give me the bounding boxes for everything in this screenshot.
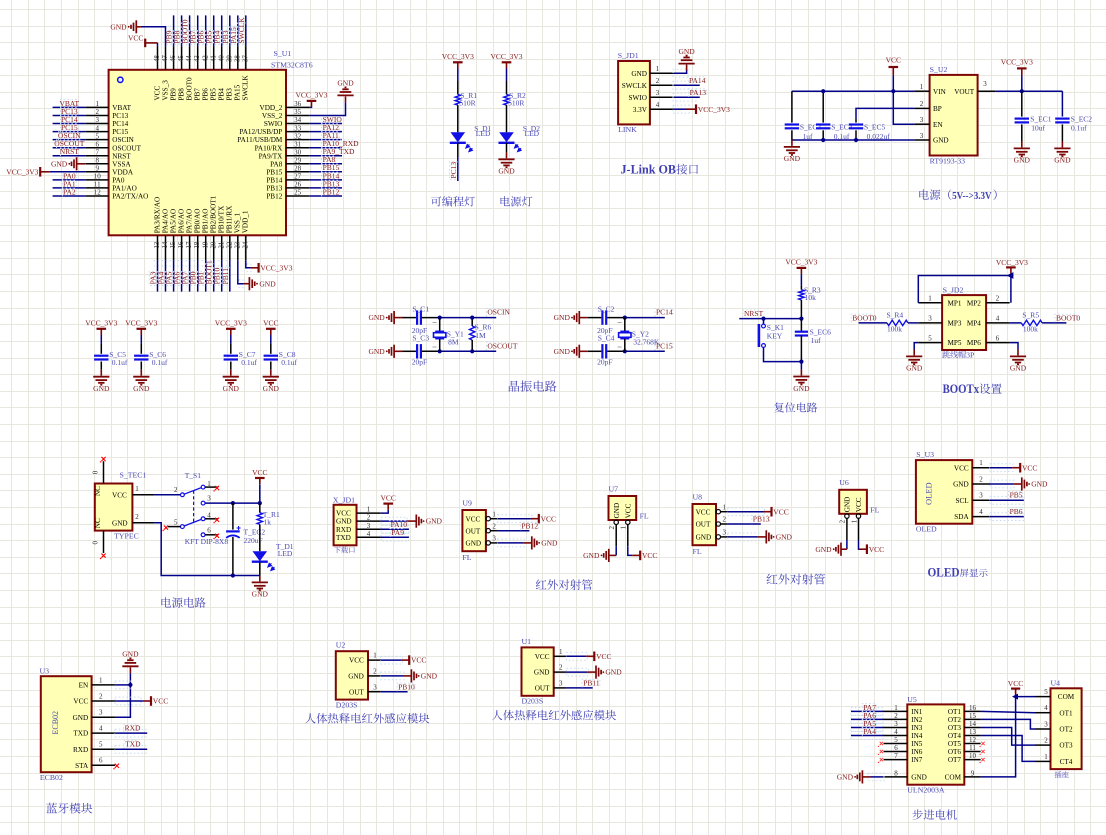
svg-text:VCC: VCC [380, 493, 395, 502]
svg-text:PA6/AO: PA6/AO [177, 209, 185, 234]
power port VCC_3V3 at U1 pin 36 [307, 100, 317, 102]
svg-text:GND: GND [793, 384, 810, 393]
wire net PB9 (pin 46) [170, 26, 178, 30]
svg-text:7: 7 [894, 752, 898, 760]
net label PA9 [390, 529, 404, 537]
power port VCC at U6 [866, 544, 868, 554]
junction VCC column [258, 501, 262, 505]
U1 bottom pin 17 (PA7/AO) [189, 235, 191, 260]
wire OSCIN rail [440, 317, 497, 319]
S_U3 pin 2 (GND) [972, 483, 990, 485]
svg-text:46: 46 [170, 55, 177, 62]
svg-text:14: 14 [162, 241, 169, 248]
U8 pin 3 (GND) with inverted bubble [716, 535, 720, 539]
power port VCC at U3 [150, 696, 152, 706]
svg-text:OUT: OUT [535, 685, 550, 693]
junction EN/GND wire [115, 681, 131, 689]
U2 left pin 3 (EN) [914, 123, 929, 125]
wire net OSCOUT (pin 6) [53, 147, 86, 149]
junction arrow VCC/COM [1012, 694, 1018, 700]
wire MP6 to GND [1010, 343, 1018, 350]
wire net PA3 (pin 13) [154, 261, 162, 266]
svg-text:IN6: IN6 [911, 748, 923, 756]
resistor T_R1 1k [259, 503, 261, 513]
svg-text:6: 6 [96, 140, 100, 148]
svg-text:20pF: 20pF [597, 357, 612, 366]
svg-text:GND: GND [554, 313, 571, 322]
U5 right pin 11 (OT6) [964, 751, 980, 753]
power port GND at U2 [410, 669, 412, 682]
wire JD1 pin1 to GND [673, 69, 688, 77]
svg-text:VCC_3V3: VCC_3V3 [785, 258, 817, 267]
svg-text:PB4: PB4 [218, 88, 226, 101]
svg-text:VSSA: VSSA [112, 160, 131, 168]
svg-text:PB1/AO: PB1/AO [202, 209, 210, 234]
JD2 pin 2 (MP2) [986, 302, 1010, 304]
net label PC14 [655, 308, 673, 316]
svg-text:PB11: PB11 [583, 679, 600, 688]
title 电源电路 [161, 597, 205, 608]
svg-text:3: 3 [983, 80, 987, 88]
svg-text:GND: GND [263, 384, 280, 393]
junction R6 bottom [470, 349, 474, 353]
svg-text:ECB02: ECB02 [51, 711, 60, 735]
svg-text:15: 15 [170, 241, 177, 248]
svg-text:ECB02: ECB02 [40, 773, 63, 782]
svg-text:OUT: OUT [349, 688, 364, 696]
U1 bottom pin 18 (PB0/AO) [197, 235, 199, 260]
svg-text:16: 16 [969, 704, 977, 712]
power port VCC_3V3 above S_C6 [137, 328, 147, 330]
net label PB14 [322, 172, 340, 180]
svg-text:35: 35 [294, 108, 302, 116]
net label PB0 [190, 272, 198, 286]
JD2 pin 5 (MP5) [918, 342, 942, 344]
power port VCC_3V3 at JD1 pin4 [695, 104, 697, 114]
svg-text:PB10: PB10 [398, 682, 415, 691]
wire net PB6 (pin 42) [202, 26, 210, 30]
title 复位电路 [774, 402, 817, 412]
sensor U9 body [462, 510, 486, 551]
net label PC14 [61, 116, 79, 124]
wire U1 GND [566, 668, 588, 676]
U1 bottom pin 14 (PA4/AO) [165, 235, 167, 260]
net label OSCIN [486, 308, 508, 316]
net label PA6 [862, 712, 876, 720]
wire NRST [739, 318, 801, 320]
svg-text:VCC: VCC [153, 86, 161, 101]
svg-text:GND: GND [631, 70, 647, 78]
junction arrow VCC_3V3/loop [1007, 272, 1014, 279]
svg-text:1: 1 [920, 83, 924, 91]
net label SWCLK [238, 23, 246, 45]
JD2 pin 6 (MP6) [986, 342, 1010, 344]
svg-text:PC15: PC15 [112, 128, 128, 136]
junction T_EC2/bottom wire [231, 573, 235, 577]
U1 bottom pin 23 (VSS_1) [237, 235, 239, 260]
wire net PB0 (pin 18) [194, 261, 202, 266]
wire U2 OUT net PB10 [381, 691, 408, 693]
svg-text:6: 6 [207, 526, 211, 534]
svg-text:PA4/AO: PA4/AO [161, 209, 169, 234]
sensor U8 body [693, 504, 717, 545]
X_JD1 pin 4 (TXD) [357, 536, 381, 538]
TEC1 pin 1 (VCC) [132, 494, 154, 496]
svg-text:6: 6 [894, 744, 898, 752]
wire net PA14 [673, 81, 696, 89]
svg-text:3: 3 [559, 680, 563, 688]
power port VCC_3V3 above D1 [453, 61, 463, 63]
U5 left pin 4 (IN4) [884, 735, 908, 737]
svg-text:SWCLK: SWCLK [242, 75, 250, 101]
wire U1 OUT net PB11 [566, 687, 592, 689]
power port GND left of S_C2 [578, 311, 580, 324]
U1 right pin 32 (PA11/USB/DM) [286, 139, 309, 141]
svg-text:VCC_3V3: VCC_3V3 [1001, 57, 1033, 66]
wire U8 pin3 to GND [728, 533, 759, 541]
svg-text:IN3: IN3 [911, 724, 923, 732]
wire U7 GND pin down-left [615, 546, 617, 555]
power port GND below EC1 [1021, 142, 1023, 148]
power port GND above U3 wires [129, 667, 131, 673]
svg-text:SCL: SCL [956, 497, 969, 505]
net label PA7 [181, 272, 189, 286]
svg-text:PB5: PB5 [1010, 491, 1023, 500]
TEC1 top pin 0 (NC) [103, 461, 105, 483]
svg-text:IN1: IN1 [911, 708, 923, 716]
svg-text:1M: 1M [475, 331, 486, 340]
wire U9 pin2 net PB12 [498, 530, 530, 532]
svg-text:KEY: KEY [767, 331, 783, 340]
U8 pin 2 (OUT) with inverted bubble [716, 522, 720, 526]
svg-text:S_U3: S_U3 [916, 450, 934, 459]
wire net PB14 (pin 27) [309, 179, 342, 181]
svg-text:OLED: OLED [928, 564, 960, 579]
U5 right pin 14 (OT3) [964, 727, 980, 729]
svg-text:VCC_3V3: VCC_3V3 [6, 167, 38, 176]
svg-text:VCC: VCC [541, 514, 556, 523]
svg-text:2: 2 [96, 108, 100, 116]
svg-text:GND: GND [368, 313, 385, 322]
junction NRST/R3/EC6 [799, 317, 803, 321]
wire net PA2 (pin 12) [53, 195, 86, 197]
power port GND at U1 pin 23 [248, 277, 250, 290]
U4 pin 1 (CT4) [1035, 760, 1051, 762]
regulator S_U2 body [930, 75, 978, 156]
net label PC15 [655, 342, 673, 350]
svg-text:GND: GND [815, 545, 832, 554]
capacitor S_EC5 0.022uf [855, 119, 857, 123]
svg-text:PB7: PB7 [194, 88, 202, 101]
svg-text:GND: GND [337, 79, 354, 88]
svg-text:3: 3 [979, 492, 983, 500]
no-connect X at U5 pin 6 [880, 750, 883, 753]
svg-text:U2: U2 [336, 641, 346, 650]
net label OSCOUT [486, 342, 512, 350]
wire S_U3 pin2 to GND [990, 480, 1014, 488]
svg-text:PB12: PB12 [323, 187, 340, 196]
U5 left pin 8 (GND) [884, 776, 908, 778]
U8 pin 1 (VCC) with inverted bubble [716, 510, 720, 514]
wire VCC to EN [893, 91, 914, 124]
power port GND below EC3 [791, 140, 793, 146]
power port GND at U8 [765, 530, 767, 543]
net label PB6 [1009, 508, 1023, 516]
net label PB12 [520, 522, 538, 530]
svg-text:19: 19 [202, 241, 209, 248]
TEC1 bottom pin 0 (NC) [103, 531, 105, 553]
wire VCC to U4 COM [1016, 696, 1035, 698]
svg-text:OT7: OT7 [948, 756, 962, 764]
power port VCC at U7 [639, 551, 641, 561]
PIR module U1 body [522, 647, 554, 695]
U1 right pin 34 (SWIO) [286, 123, 309, 125]
switch linkage dashed line [193, 491, 195, 523]
wire OT4 to U4 [981, 736, 1035, 762]
svg-text:10k: 10k [805, 293, 817, 302]
junction crystal/OSCOUT [438, 349, 442, 353]
svg-text:11: 11 [969, 744, 976, 752]
U1 top pin 48 (VCC) [157, 46, 159, 70]
power port GND below reset [800, 370, 802, 376]
svg-text:4: 4 [1044, 704, 1048, 712]
wire net PA5 [851, 724, 883, 732]
svg-text:PB2/BOOT1: PB2/BOOT1 [210, 195, 218, 233]
wire U1 VCC [566, 652, 587, 660]
svg-text:0: 0 [92, 541, 100, 545]
svg-text:2: 2 [99, 692, 103, 700]
U3 pin 5 (RXD) [92, 748, 116, 750]
power port GND at U9 [531, 536, 533, 549]
svg-text:2: 2 [492, 522, 496, 530]
svg-text:S_U2: S_U2 [930, 65, 948, 74]
title 可编程灯 (programmable LED) [431, 196, 475, 206]
svg-text:SDA: SDA [954, 513, 969, 521]
LED T_D1 [253, 551, 268, 561]
U1 bottom pin 22 (PB11/RX) [229, 235, 231, 260]
svg-text:2: 2 [174, 486, 178, 494]
svg-text:VCC_3V3: VCC_3V3 [698, 105, 730, 114]
LED S_D1 [451, 132, 466, 142]
net label PB4 [214, 31, 222, 45]
sensor U6 body [839, 490, 867, 514]
svg-text:VIN: VIN [933, 88, 947, 96]
wire T_D1 to GND node [259, 562, 261, 576]
svg-text:LED: LED [476, 129, 491, 138]
wire net PA9_TXD (pin 30) [309, 155, 342, 157]
net label PB10 [397, 683, 415, 691]
svg-text:1: 1 [96, 100, 100, 108]
wire GND rail [792, 139, 915, 141]
U1 left pin 3 (PC14) [86, 123, 109, 125]
net label PB5 [206, 31, 214, 45]
net label PA11 [322, 132, 340, 140]
net label PA2 [62, 188, 76, 196]
svg-text:NRST: NRST [744, 309, 764, 318]
svg-text:0: 0 [92, 470, 100, 474]
wire net PA5 (pin 15) [170, 261, 178, 266]
svg-text:OT6: OT6 [948, 748, 962, 756]
wire net PC13 (pin 2) [53, 115, 86, 117]
svg-text:J-Link OB: J-Link OB [621, 163, 677, 177]
svg-text:30: 30 [294, 148, 302, 156]
JD2 part name 跳线帽3P [942, 351, 965, 358]
svg-text:4: 4 [979, 508, 983, 516]
power port VCC at U1 pin 48 [144, 39, 146, 48]
power port GND below S_C7 [230, 370, 232, 376]
svg-text:32: 32 [294, 132, 302, 140]
U1 bottom pin 24 (VDD_1) [245, 235, 247, 260]
svg-text:1k: 1k [264, 518, 272, 527]
svg-text:1: 1 [928, 295, 932, 303]
U9 pin 3 (GND) with inverted bubble [486, 541, 490, 545]
wire net PA7 (pin 17) [186, 261, 194, 266]
svg-text:3P: 3P [966, 351, 975, 360]
wire net PA0 (pin 10) [53, 179, 86, 181]
svg-text:1: 1 [135, 485, 139, 493]
wire U2 VCC [381, 656, 403, 664]
svg-text:3: 3 [492, 535, 496, 543]
svg-text:6: 6 [99, 757, 103, 765]
wire VCC_3V3 to S_C6 [140, 335, 142, 343]
svg-text:U1: U1 [522, 637, 532, 646]
svg-text:9: 9 [96, 165, 100, 173]
svg-text:36: 36 [294, 100, 302, 108]
svg-text:OLED: OLED [924, 482, 934, 505]
no-connect X at U5 pin 12 [981, 742, 984, 745]
svg-text:IN5: IN5 [911, 740, 923, 748]
svg-text:2: 2 [979, 475, 983, 483]
svg-text:1: 1 [492, 510, 496, 518]
net label PB13 [752, 515, 770, 523]
switch pin4 stub with no-connect [205, 518, 218, 520]
net label PC15 [61, 124, 79, 132]
svg-text:40: 40 [218, 55, 225, 62]
svg-text:VDD_1: VDD_1 [242, 210, 250, 233]
display connector S_U3 body [916, 460, 972, 524]
svg-text:NRST: NRST [112, 152, 131, 160]
wire net PB1 (pin 19) [202, 261, 210, 266]
svg-text:VCC: VCC [624, 503, 632, 518]
svg-text:MP2: MP2 [967, 299, 981, 307]
U1 top pin 38 (PA15) [237, 46, 239, 70]
svg-text:5: 5 [96, 132, 100, 140]
svg-text:PB3: PB3 [226, 88, 234, 101]
svg-text:BOOTx: BOOTx [943, 381, 980, 396]
net label PA10_RXD [322, 140, 355, 148]
wire net PC14 (pin 3) [53, 123, 86, 125]
svg-text:28: 28 [294, 165, 302, 173]
svg-text:3: 3 [920, 116, 924, 124]
connector S_TEC1 body [95, 484, 133, 531]
U9 pin 2 (OUT) with inverted bubble [486, 529, 490, 533]
wire R4 to BOOT0 [859, 322, 888, 324]
power port GND right of X_JD1 [415, 515, 417, 528]
JD1 pin 1 (GND) [650, 72, 674, 74]
svg-text:PA10/RX: PA10/RX [255, 144, 284, 152]
wire switch pin3 to VCC node [205, 502, 260, 504]
U2 pin 2 (GND) [368, 675, 381, 677]
net label PA8 [322, 156, 336, 164]
svg-text:GND: GND [534, 669, 550, 677]
wire U3 VCC to VCC port [115, 697, 141, 705]
svg-text:PA4: PA4 [863, 727, 876, 736]
svg-text:1: 1 [656, 65, 660, 73]
svg-text:GND: GND [906, 364, 923, 373]
wire pin36 to VCC_3V3 [309, 106, 311, 108]
svg-text:PB8: PB8 [177, 88, 185, 101]
wire U8 pin2 net PB13 [728, 523, 761, 525]
capacitor S_EC1 10uf [1021, 91, 1023, 116]
svg-text:IN2: IN2 [911, 716, 923, 724]
switch T_S1 pole 1 (pins 2-1) [181, 493, 185, 497]
svg-text:33: 33 [294, 124, 302, 132]
junction EC6/GND node [799, 360, 803, 364]
U6 pin 1 (VCC) with bubble [856, 514, 860, 518]
wire U5 COM up to VCC node [981, 697, 1016, 777]
wire net BOOT0 (pin 44) [186, 26, 194, 30]
net label BOOT0 (left) [851, 314, 873, 322]
power port VCC above S_C8 [266, 328, 276, 330]
svg-text:16: 16 [178, 241, 185, 248]
U1 right pin 29 (PA8) [286, 163, 309, 165]
title 步进电机 [912, 809, 956, 819]
svg-text:GND: GND [1010, 364, 1027, 373]
svg-text:GND: GND [933, 137, 949, 145]
svg-text:27: 27 [294, 173, 302, 181]
svg-text:S_R5: S_R5 [1022, 311, 1039, 320]
svg-text:VCC_3V3: VCC_3V3 [85, 319, 117, 328]
svg-text:GND: GND [112, 519, 128, 527]
svg-text:PC13: PC13 [449, 162, 458, 179]
svg-text:26: 26 [294, 181, 302, 189]
svg-text:VCC: VCC [773, 507, 788, 516]
power port VCC above X_JD1 [383, 503, 393, 505]
svg-text:BOOT0: BOOT0 [852, 313, 876, 322]
wire net TXD [115, 745, 146, 753]
wire net RXD [115, 729, 146, 737]
svg-text:PA9: PA9 [391, 528, 404, 537]
svg-text:VCC_3V3: VCC_3V3 [490, 52, 522, 61]
svg-text:SWCLK: SWCLK [622, 82, 648, 90]
svg-text:GND: GND [93, 384, 110, 393]
svg-text:3: 3 [367, 522, 371, 530]
svg-text:IN4: IN4 [911, 732, 923, 740]
U6 pin 2 (GND) with bubble [845, 514, 849, 518]
svg-text:23: 23 [234, 241, 241, 248]
svg-text:GND: GND [554, 347, 571, 356]
svg-text:COM: COM [945, 774, 962, 782]
svg-text:S_JD2: S_JD2 [943, 285, 964, 294]
wire net PB15 (pin 28) [309, 171, 342, 173]
wire VCC node down from top [259, 484, 261, 503]
svg-text:PA9/TX: PA9/TX [259, 152, 284, 160]
resistor S_R5 100k [1021, 320, 1042, 325]
svg-text:GND: GND [336, 518, 352, 526]
capacitor S_EC4 0.1uf [822, 91, 824, 122]
net label VBAT [61, 100, 79, 108]
net label PB5 [1009, 492, 1023, 500]
wire VCC to S_C8 [270, 335, 272, 343]
svg-text:TXD: TXD [125, 740, 141, 749]
svg-text:510R: 510R [459, 99, 475, 108]
wire net PB3 (pin 39) [226, 26, 234, 30]
svg-text:48: 48 [154, 55, 161, 62]
X_JD1 part name 下载口 [334, 546, 355, 553]
junction R6 top [470, 316, 474, 320]
U7 pin 1 (VCC) with bubble [626, 520, 630, 524]
svg-text:1: 1 [979, 459, 983, 467]
